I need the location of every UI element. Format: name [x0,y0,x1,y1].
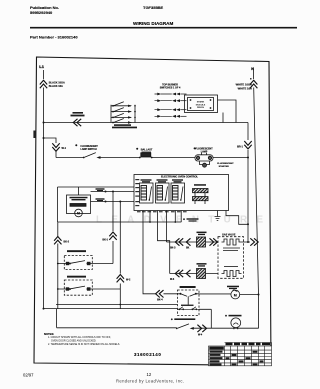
wire drop to bottom rail left [119,202,121,309]
connector chevrons on top run [73,119,81,126]
svg-text:W-4: W-4 [198,333,203,336]
top burner switch arrows row2 [155,99,187,102]
wire door switch to conv motor [199,293,231,295]
wire conv motor to N corner [240,295,259,329]
lock switch 2 S2 [64,276,120,296]
clock TOD box [67,195,91,214]
svg-text:ELECTRONIC OVEN CONTROL: ELECTRONIC OVEN CONTROL [161,176,199,179]
wire L1 vertical [43,70,45,309]
wire main top run y=122.5 [44,122,249,124]
svg-text:BK: BK [186,248,190,250]
connector chevron lock bus [54,237,61,245]
svg-text:M: M [77,211,80,215]
label top burner switches [160,84,181,90]
wire N vertical [254,70,259,295]
notes block [44,332,120,346]
svg-text:02/97: 02/97 [23,373,34,378]
broil ignitor E2 [197,269,206,279]
svg-text:NOTES:: NOTES: [44,332,54,336]
top burner switch arrows row3 [155,108,187,111]
connector chevron down on collector [244,141,251,149]
connector chevron on N [250,80,257,88]
wire EOC pin drop to door switch [143,211,174,294]
top burner switch arrows row1 [155,93,187,96]
ground at EOC [183,211,220,222]
svg-text:Part Number - 316002140: Part Number - 316002140 [30,35,78,40]
fluorescent lamp switch [75,144,100,159]
wire spark module bottom tap [222,113,224,123]
svg-text:FLUORESCENT: FLUORESCENT [217,163,234,165]
wire EOC pin drop to broil row [158,211,170,274]
door switch dashed box S3 [174,286,199,316]
connector chevrons lamp row [197,325,206,332]
svg-text:LAMP SWITCH: LAMP SWITCH [81,148,98,151]
electronic oven control box U2 [134,175,229,211]
connector chevron on branch [52,143,59,151]
gas valve dashed box [218,237,244,279]
svg-text:Rendered by LeadVenture, Inc.: Rendered by LeadVenture, Inc. [116,379,184,384]
svg-text:W-3: W-3 [170,279,175,281]
wire clock loop left [57,187,59,222]
connector chevron door feed [156,290,164,297]
wire EOC pin drops to bottom rail [175,211,181,223]
connector chevron on L1 [40,80,47,88]
connector chevrons broil row [175,270,190,277]
svg-text:5995292940: 5995292940 [30,10,53,15]
connector into gas valve bake [210,238,218,245]
diagram frame [34,57,271,366]
bake ignitor E1 [197,237,206,247]
oven selector switch bank [111,102,136,124]
label below switch bank [112,124,137,128]
svg-text:TGF355BE: TGF355BE [143,5,164,10]
clock label smudge [70,197,88,201]
ballast [136,148,153,159]
wire bake ignitor row [167,241,219,243]
oven lamp DS1 [225,315,241,330]
svg-text:BLACK 10GA: BLACK 10GA [49,82,65,85]
EOC bottom pin smudges [137,211,187,212]
connector chevron to N [250,238,258,245]
svg-text:BK-1: BK-1 [102,239,108,242]
svg-text:L1: L1 [39,64,44,69]
svg-text:BK-2: BK-2 [64,241,70,244]
svg-text:WHITE 16A: WHITE 16A [238,86,252,90]
wire label PNK 18GA [96,188,105,191]
fluorescent lamp [194,147,214,161]
lock switch 1 S1 [64,250,113,269]
wire bottom rail 2 [44,308,212,311]
connector chevron on drop [117,275,124,283]
wire spark module output [218,100,237,123]
svg-text:M: M [234,293,237,297]
clock motor M1 [75,209,83,217]
svg-text:SWITCHES 1 OF 4: SWITCHES 1 OF 4 [160,87,181,90]
wire EOC right output staircase [226,211,248,225]
wire oven lamp row [57,309,259,329]
wire EOC pin drop to bake row [166,211,168,243]
wire lock bus vertical [58,222,70,309]
clock heater bar [70,204,86,207]
scan artifact tick on frame left edge [33,131,35,139]
connector chevron lock1 [109,232,116,240]
conv relay K3 [171,179,185,203]
wire clock loop bottom [58,221,182,223]
svg-text:GAS VALVE: GAS VALVE [222,234,236,237]
svg-text:WIRING DIAGRAM: WIRING DIAGRAM [133,21,173,26]
wire label BLACK 10GA [49,82,65,89]
svg-text:FLUORESCENT: FLUORESCENT [195,149,213,151]
oven light switch S4 [171,318,195,329]
convection motor M2 [231,290,240,299]
svg-text:316002140: 316002140 [134,352,161,357]
top burner switch arrows row4 [155,115,187,118]
wire fluorescent run y=157.5 [56,157,248,159]
svg-text:FLUORESCENT: FLUORESCENT [81,146,99,148]
wire color code table [209,343,272,366]
wire label PNK 18GA second [96,198,105,201]
wire gas valve output to N [242,241,251,243]
svg-text:BLACK 16A: BLACK 16A [49,85,63,88]
wire drop to lock switch 1 [112,192,114,264]
svg-text:BR-1: BR-1 [237,145,244,149]
gas valve bake coil [222,239,242,245]
svg-text:REIGN: REIGN [197,107,204,109]
broil relay K2 [156,179,170,203]
fluorescent starter [200,161,235,168]
wire broil ignitor row [170,273,218,275]
header rule [30,27,297,29]
bake relay K1 [140,179,154,203]
wire EOC pin drop short [149,211,151,223]
wire door box drop [210,309,212,328]
wire right collector vertical [247,123,249,243]
connector chevrons bake row [175,238,190,245]
svg-text:BK-3: BK-3 [170,248,176,250]
wire clock to EOC pin 2 [91,201,135,203]
header: publication number [30,5,59,15]
svg-text:STARTER: STARTER [219,165,230,168]
svg-text:BALLAST: BALLAST [141,148,153,151]
svg-text:BK-4: BK-4 [157,299,163,302]
transformer T1 [193,184,209,204]
svg-text:LAMP: LAMP [201,151,208,154]
EOC left pin smudges [135,179,139,206]
svg-text:SPARK: SPARK [197,101,205,104]
gas valve broil coil [222,271,242,277]
svg-text:12: 12 [147,372,152,377]
svg-text:MODULE: MODULE [196,104,206,106]
svg-text:W-1: W-1 [62,147,67,150]
wire bottom rail 1 [56,304,178,306]
label above connector [71,112,85,116]
spark module U1 [185,95,218,113]
wire clock to EOC pin 1 [91,191,135,193]
wire clock loop top [58,186,135,188]
svg-text:W-2: W-2 [126,279,131,282]
wire L1 branch to lamp circuit [44,138,57,158]
svg-text:2. TEMPERATURE SENSE IS IN NOT: 2. TEMPERATURE SENSE IS IN NOT OPENED ON… [48,343,120,346]
wire label WHITE 10GA [236,78,252,90]
svg-text:WHITE 10GA: WHITE 10GA [236,83,252,87]
